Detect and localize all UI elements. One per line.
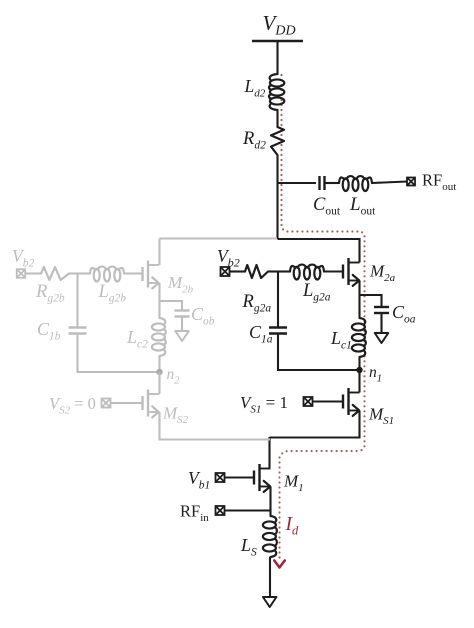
wire MS2 source to grey bottom rail (160, 412, 271, 440)
wire branch to Coa (360, 295, 382, 307)
wire M2b source down (158, 283, 160, 302)
transistor M2b (143, 261, 160, 289)
transistor MS2 (143, 390, 160, 418)
port VS2 (102, 399, 111, 408)
inductor Ld2 (269, 74, 284, 110)
wire Vb2 to Rg2a (230, 270, 246, 272)
wire Rd2 down to top rail (276, 155, 278, 239)
wire Lout to RFout port (372, 182, 407, 184)
node n2 (156, 369, 162, 375)
wire M1 source down (269, 487, 271, 517)
capacitor C1b branch (76, 274, 78, 328)
wire Lg2a to M2a gate (324, 270, 343, 272)
capacitor Coa (374, 306, 389, 308)
port RFout (407, 178, 415, 186)
wire Lc1 to n1 (358, 357, 360, 370)
wire Vb1 to M1 gate (225, 476, 255, 478)
ground Cob (175, 331, 189, 341)
wire n2 to MS2 drain (158, 372, 160, 394)
capacitor Cout (318, 176, 320, 190)
wire junction to Lg2a (278, 270, 290, 272)
wire Ld2 to Rd2 (276, 110, 278, 127)
wire RFin to source node (225, 509, 271, 511)
wire M2a source down (358, 281, 360, 297)
inductor Lg2a (290, 265, 324, 280)
current path Id (dotted) (280, 74, 282, 76)
wire junction to Lg2b (78, 272, 91, 274)
inductor Lout (339, 176, 372, 191)
wire branch to Cob (160, 301, 183, 311)
transistor M2a (343, 258, 360, 286)
wire LS to ground (269, 557, 271, 597)
wire Vb2 to Rg2b (26, 272, 42, 274)
wire output branch (278, 182, 317, 184)
wire VS1 to MS1 gate (313, 400, 344, 402)
inductor Lg2b (90, 267, 124, 282)
wire bottom rail down to M1 (268, 437, 270, 469)
transistor M1 (254, 464, 271, 492)
wire M2b drain to grey rail (158, 239, 160, 266)
wire VDD to Ld2 (276, 41, 278, 74)
wire Lc2 to n2 (158, 356, 160, 372)
resistor Rg2a (245, 265, 268, 278)
wire VS2 to MS2 gate (111, 402, 143, 404)
port VS1 (304, 397, 313, 406)
inductor Lc2 (158, 301, 160, 318)
node n1 (356, 367, 362, 373)
wire C1a to n1 (277, 369, 359, 371)
VDD supply bar (252, 40, 303, 42)
transistor MS1 (343, 388, 360, 416)
ground main (263, 597, 277, 607)
capacitor Cob (175, 309, 190, 311)
port Vb2 left (17, 269, 26, 278)
inductor Lc1 (358, 295, 360, 318)
wire n1 to MS1 drain (358, 370, 360, 393)
port Vb1 (216, 473, 225, 482)
wire MS1 source to bottom rail (270, 411, 360, 438)
wire C1b to n2 (77, 371, 160, 373)
Id arrowhead (274, 561, 284, 568)
port RFin (216, 506, 225, 515)
capacitor C1a branch (277, 272, 279, 328)
grey top rail (160, 237, 278, 239)
ground Coa (375, 333, 389, 343)
resistor Rg2b (41, 267, 69, 280)
resistor Rd2 (271, 127, 284, 155)
wire Lg2b to M2b gate (124, 272, 143, 274)
port Vb2 right (221, 267, 230, 276)
top rail to M2a drain (278, 239, 360, 263)
inductor LS (263, 516, 277, 557)
